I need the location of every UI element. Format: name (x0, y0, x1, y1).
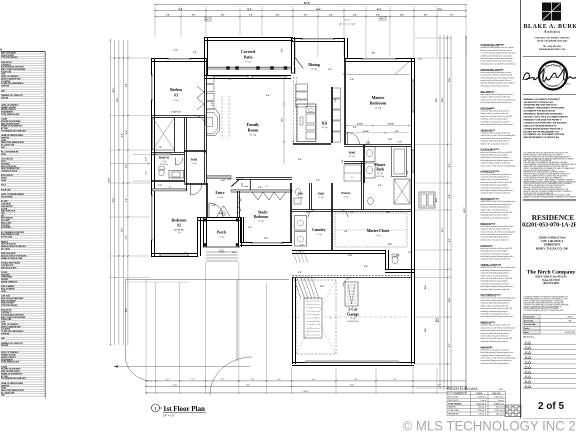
svg-text:INTENDED TO BE USED FOR P: INTENDED TO BE USED FOR PERMIT O (524, 119, 562, 121)
title disclaimer (524, 296, 569, 313)
svg-text:Drawn By:: Drawn By: (524, 320, 534, 322)
master interior dims (347, 125, 409, 127)
svg-text:Pdr: Pdr (298, 192, 304, 196)
info table (523, 315, 576, 335)
svg-text:Study/: Study/ (258, 211, 269, 215)
svg-text:10' Clg: 10' Clg (377, 173, 383, 175)
svg-text:Architect: Architect (543, 29, 561, 34)
svg-text:Bath #2: Bath #2 (159, 156, 170, 160)
svg-text:2009: 2009 (499, 389, 503, 391)
garage note box (304, 298, 322, 338)
svg-text:VLTD Clg: VLTD Clg (376, 176, 384, 178)
svg-text:3'-8": 3'-8" (449, 194, 451, 198)
wall: kitchen bottom (293, 143, 331, 145)
interior dimension texts (158, 48, 438, 332)
svg-text:10' Clg: 10' Clg (217, 197, 223, 199)
svg-text:6'-0": 6'-0" (449, 238, 451, 242)
svg-text:9'-4": 9'-4" (312, 379, 316, 381)
door arc bath2 (176, 158, 184, 166)
svg-text:© MLS TECHNOLOGY INC 2: © MLS TECHNOLOGY INC 2 (403, 418, 576, 432)
wall: family room left (204, 58, 206, 183)
wall: hall right bottom (344, 161, 363, 163)
svg-text:5'-8": 5'-8" (126, 83, 128, 87)
porch columns (204, 219, 207, 222)
svg-text:5'-0": 5'-0" (304, 15, 308, 17)
garage attic ladder (345, 282, 358, 306)
window master top (362, 58, 396, 60)
patio beam (206, 66, 291, 68)
exterior wall: left (151, 58, 153, 256)
wall: bath2/hall divider (184, 117, 186, 183)
svg-text:04-09-2021: 04-09-2021 (565, 332, 576, 334)
laundry washer dryer (295, 216, 307, 231)
svg-text:Family: Family (247, 122, 260, 127)
svg-text:605 60/70 HC: 605 60/70 HC (347, 321, 359, 323)
svg-text:10' Clg: 10' Clg (349, 156, 355, 158)
drive arc right (237, 306, 292, 361)
svg-text:SUPPORT: SUPPORT (1, 86, 10, 88)
svg-text:DETECT WINDOW UNIT: DETECT WINDOW UNIT (1, 78, 22, 80)
exterior wall: dining top (291, 38, 344, 40)
svg-text:8'-4": 8'-4" (354, 379, 358, 381)
right notes column (481, 44, 516, 365)
window bath right (412, 150, 414, 172)
svg-text:5/8 IN GYPSUM: 5/8 IN GYPSUM (1, 303, 14, 305)
svg-text:7'-0": 7'-0" (450, 15, 454, 17)
svg-text:5'-0": 5'-0" (277, 379, 281, 381)
exterior wall: bedroom3 top (151, 58, 206, 60)
svg-text:5'-8": 5'-8" (192, 15, 196, 17)
patio posts (226, 66, 229, 69)
architect seal (539, 62, 567, 90)
svg-text:NOT IN BUNDLE SUPPORT: NOT IN BUNDLE SUPPORT (1, 314, 25, 316)
exterior wall: study bottom (240, 242, 292, 244)
wall: garage-house separation (292, 277, 412, 279)
svg-text:SHUTDOWNS: SHUTDOWNS (1, 196, 13, 198)
svg-text:COMPONENT: COMPONENT (1, 277, 13, 279)
window master right (412, 80, 414, 112)
svg-text:WINDOW NOTES:: WINDOW NOTES: (481, 223, 497, 225)
garage dashed area (296, 280, 336, 354)
exterior wall: study left (240, 217, 242, 242)
study bifold doors (252, 192, 286, 200)
svg-text:11'-6": 11'-6" (117, 98, 119, 103)
wall: bath2 top (151, 152, 184, 154)
svg-text:LEVEL: LEVEL (1, 291, 8, 293)
door arc entry front (209, 203, 223, 217)
svg-text:66'-0": 66'-0" (464, 208, 466, 213)
family ceiling dashes (221, 96, 223, 139)
bath2 vanity (169, 171, 184, 179)
svg-text:HOLD: HOLD (1, 161, 7, 163)
svg-text:TOP WINDOW OR OVER UNIT: TOP WINDOW OR OVER UNIT (1, 378, 27, 380)
svg-text:SPECS: SPECS (1, 178, 8, 180)
svg-text:TOP WINDOW OR OVER UNIT: TOP WINDOW OR OVER UNIT (1, 130, 27, 132)
exterior wall: garage bottom (292, 362, 414, 364)
svg-text:LOG CIRCLES: LOG CIRCLES (1, 159, 14, 161)
svg-text:P Clg: P Clg (246, 62, 251, 64)
svg-text:10' Clg: 10' Clg (375, 108, 381, 110)
wall: pantry right (361, 162, 363, 210)
svg-text:SUPPORT: SUPPORT (1, 137, 10, 139)
svg-text:Bedroom: Bedroom (370, 101, 387, 106)
separator 1 (523, 56, 576, 58)
svg-text:Porch: Porch (217, 231, 226, 235)
svg-text:SLPD Clg: SLPD Clg (160, 164, 168, 166)
kitchen cabinets left (296, 84, 308, 91)
window bedrm3 left (151, 75, 153, 100)
window dining top (302, 38, 334, 40)
bedrm3 closet bifold (197, 86, 204, 98)
svg-text:9' Clg: 9' Clg (219, 237, 224, 239)
wall: dining left (294, 39, 296, 58)
fireplace (207, 109, 220, 136)
bath2 toilet (159, 169, 164, 176)
window bedroom2 bottom (160, 254, 188, 256)
wall: master bedroom left (344, 58, 346, 145)
svg-text:Master: Master (375, 163, 386, 167)
svg-text:4/9/21: 4/9/21 (566, 84, 571, 86)
svg-text:5'-8": 5'-8" (166, 15, 170, 17)
floor plan data table (447, 387, 506, 415)
svg-text:FLOOR: FLOOR (1, 208, 8, 210)
svg-text:LINES: LINES (1, 388, 7, 390)
wall: laundry right (331, 210, 333, 251)
svg-text:Pantry: Pantry (341, 191, 351, 195)
svg-text:5'-8": 5'-8" (251, 379, 255, 381)
svg-text:10'-8": 10'-8" (449, 78, 451, 83)
bath2 left extension lines (133, 154, 151, 156)
plan title circle (152, 404, 160, 412)
signature (523, 69, 576, 82)
top dimension lines (154, 2, 467, 57)
svg-text:LOW: LOW (1, 74, 5, 76)
door arc closet (340, 210, 348, 218)
hall linen (344, 165, 361, 181)
svg-text:8'-0": 8'-0" (449, 163, 451, 167)
revision rows (523, 342, 576, 389)
wall: bedrm3 bottom (151, 115, 205, 117)
svg-text:5/8 IN GYPSUM: 5/8 IN GYPSUM (1, 55, 14, 57)
wall: bath vanity wall (363, 145, 365, 184)
svg-text:10'-8": 10'-8" (438, 9, 443, 11)
svg-text:FILL OR FURNITURE: FILL OR FURNITURE (1, 152, 19, 154)
svg-text:Master: Master (372, 95, 385, 100)
cl strip track (231, 190, 292, 192)
porch steps (206, 251, 238, 253)
svg-text:17'-0": 17'-0" (246, 385, 251, 387)
svg-text:LOW: LOW (1, 322, 5, 324)
svg-text:Kit: Kit (322, 122, 328, 126)
front slab outline (125, 280, 289, 395)
separator 3 (523, 199, 576, 201)
kitchen island (297, 104, 316, 142)
bottom dimension lines (145, 35, 467, 394)
svg-text:6'-8": 6'-8" (276, 15, 280, 17)
door arc hall-bath (363, 143, 370, 150)
svg-text:19'-8": 19'-8" (113, 198, 115, 203)
svg-text:2 of 5: 2 of 5 (538, 401, 565, 412)
svg-text:54'-0": 54'-0" (304, 2, 311, 5)
svg-text:7'-0": 7'-0" (437, 385, 441, 387)
svg-text:#3: #3 (174, 93, 178, 98)
wall: study-laundry (290, 183, 292, 242)
master toilet nook (368, 197, 374, 205)
exterior wall: right (411, 58, 413, 364)
family room builtins (207, 76, 215, 83)
title block border (520, 0, 522, 418)
porch gable (217, 206, 224, 217)
door arc bedroom2 (191, 184, 203, 196)
wall: pdr right (309, 183, 311, 210)
svg-text:NOT IN BUNDLE SUPPORT: NOT IN BUNDLE SUPPORT (1, 67, 25, 69)
wall: entry left (206, 183, 208, 217)
master shower (394, 179, 410, 204)
wall: master bedroom bottom (344, 144, 412, 146)
svg-text:1/4" = 1'-0": 1/4" = 1'-0" (163, 414, 175, 417)
master bath vanities (364, 147, 375, 162)
wall: hall bottom long (185, 183, 208, 185)
exterior wall: patio top (205, 37, 294, 39)
entry arch opening (207, 176, 231, 179)
svg-text:1st Floor Plan: 1st Floor Plan (163, 405, 205, 413)
svg-text:2-Car: 2-Car (348, 308, 358, 312)
svg-text:Bedroom: Bedroom (172, 219, 188, 223)
wall: bath-closet (292, 209, 412, 211)
svg-text:9' Clg: 9' Clg (376, 235, 381, 237)
svg-text:8'-0": 8'-0" (221, 15, 225, 17)
wall: bath2 bottom (151, 180, 185, 182)
svg-text:18'-8": 18'-8" (247, 9, 252, 11)
svg-text:12595 S 68th E Ave: 12595 S 68th E Ave (538, 235, 565, 239)
svg-text:Garage: Garage (347, 313, 359, 317)
architect logo (542, 3, 561, 21)
svg-text:Patio: Patio (244, 55, 253, 60)
svg-text:SUPPORT: SUPPORT (1, 385, 10, 387)
svg-text:PER WINDOW: PER WINDOW (1, 218, 13, 220)
svg-text:5'-0": 5'-0" (126, 235, 128, 239)
right dimension lines (415, 35, 467, 390)
closet linen bedrm3 (153, 118, 175, 151)
svg-text:HOLD: HOLD (1, 185, 7, 187)
svg-text:RESIDENCE: RESIDENCE (532, 213, 575, 222)
bottom right line (524, 417, 576, 419)
svg-text:Checked By:: Checked By: (524, 324, 536, 326)
porch walls (198, 217, 241, 219)
svg-text:7'-0": 7'-0" (221, 379, 225, 381)
svg-text:10' Clg: 10' Clg (311, 69, 317, 71)
svg-text:7'-8": 7'-8" (393, 379, 397, 381)
svg-text:Bath: Bath (376, 168, 383, 172)
svg-text:ENERGY NOTES:: ENERGY NOTES: (481, 322, 496, 324)
exterior wall: patio right (291, 37, 293, 73)
exterior wall: patio left (204, 37, 206, 76)
door arc dining-patio (296, 58, 304, 68)
kitchen counter dashes (293, 77, 295, 143)
svg-text:5'-0": 5'-0" (166, 379, 170, 381)
svg-text:10' Clg: 10' Clg (258, 221, 264, 223)
stoop hatch (293, 276, 301, 299)
door arc laundry (308, 210, 316, 218)
exterior wall: bedroom2 right (197, 217, 199, 256)
door arc garage (343, 278, 352, 287)
svg-text:HOLDER OR SHOWING: HOLDER OR SHOWING (1, 369, 21, 371)
master ceiling break (347, 74, 410, 76)
wall: pantry left (331, 183, 333, 210)
svg-text:11'-0": 11'-0" (173, 385, 178, 387)
svg-text:29'-0": 29'-0" (438, 318, 440, 323)
svg-text:Room: Room (248, 128, 259, 133)
svg-text:TYPE FOR CEILING: TYPE FOR CEILING (1, 305, 18, 307)
svg-text:21'-8": 21'-8" (350, 385, 355, 387)
cl partition (249, 179, 251, 190)
svg-text:ROOF LINE: ROOF LINE (1, 189, 11, 191)
svg-text:13'-0": 13'-0" (442, 228, 444, 233)
bedroom2 cl strip (152, 189, 186, 191)
grade arrow line (114, 366, 250, 368)
svg-text:9' Clg: 9' Clg (192, 163, 197, 165)
svg-text:HOLDER OR SHOWING: HOLDER OR SHOWING (1, 121, 21, 123)
svg-text:SOMERSET: SOMERSET (544, 243, 561, 247)
fine print block (524, 152, 576, 199)
svg-text:9' Clg: 9' Clg (173, 100, 178, 102)
svg-text:1: 1 (155, 407, 157, 411)
svg-text:Bedroom: Bedroom (254, 215, 268, 219)
svg-text:Revisions:: Revisions: (524, 336, 535, 338)
left general notes table (1, 52, 46, 399)
svg-text:9' Clg: 9' Clg (344, 197, 349, 199)
entry-study chevrons (238, 196, 242, 204)
svg-text:10' Clg: 10' Clg (250, 135, 256, 137)
exterior wall: garage left (292, 278, 294, 365)
svg-text:Hall: Hall (318, 192, 324, 196)
svg-text:9' Clg: 9' Clg (162, 161, 167, 163)
svg-text:9' Clg: 9' Clg (298, 197, 303, 199)
svg-text:Master Closet: Master Closet (367, 229, 390, 233)
svg-text:Bedrm: Bedrm (170, 87, 182, 92)
corner stamp box (505, 405, 521, 417)
svg-text:9'-8": 9'-8" (122, 228, 124, 232)
wall: family north (205, 75, 292, 77)
svg-text:CONCRETE: CONCRETE (1, 204, 12, 206)
wall: kitchen right cabinets (331, 87, 333, 143)
svg-text:Clg: Clg (178, 232, 181, 234)
exterior wall: dining step (344, 38, 346, 58)
svg-text:DETECT WINDOW UNIT: DETECT WINDOW UNIT (1, 326, 22, 328)
svg-text:9' Clg: 9' Clg (319, 197, 324, 199)
exterior wall: house bottom over laundry (292, 250, 385, 252)
wall: cl strip top (236, 177, 292, 179)
svg-text:8'-0": 8'-0" (449, 343, 451, 347)
svg-text:Entry: Entry (216, 191, 225, 195)
left dimension lines (108, 39, 150, 346)
svg-text:Hall: Hall (349, 151, 355, 155)
svg-text:LOT 1 BLOCK 2: LOT 1 BLOCK 2 (541, 239, 564, 243)
coat closet diagonal (231, 180, 239, 187)
svg-text:DOOR NOTES:: DOOR NOTES: (481, 245, 494, 247)
garage door (305, 360, 399, 362)
svg-text:TYPE FOR CEILING: TYPE FOR CEILING (1, 57, 18, 59)
svg-text:3'-8": 3'-8" (249, 15, 253, 17)
svg-text:SUPPORT: SUPPORT (1, 333, 10, 335)
master closet shelving (335, 213, 407, 247)
svg-text:Laundry: Laundry (312, 228, 326, 232)
svg-text:The Birch Company: The Birch Company (527, 269, 576, 275)
svg-text:CEILING JOISTS:: CEILING JOISTS: (481, 130, 496, 132)
master tub (392, 147, 407, 177)
svg-text:DOORS: DOORS (1, 272, 8, 274)
exterior wall: bedroom2 bottom (151, 256, 198, 258)
svg-text:#2: #2 (177, 224, 181, 228)
garage center line (324, 316, 410, 318)
svg-text:Hall: Hall (191, 158, 197, 162)
pdr fixtures (295, 189, 300, 196)
ac pad (419, 192, 435, 208)
exterior wall: WC block (385, 250, 387, 270)
svg-text:FLOOR PLAN DATA: FLOOR PLAN DATA (448, 387, 479, 391)
separator 2 (523, 94, 576, 96)
door arc bedrm3 (195, 116, 205, 126)
svg-text:CEILING: CEILING (1, 279, 9, 281)
svg-text:LINES: LINES (1, 180, 7, 182)
svg-text:9' Clg: 9' Clg (351, 318, 356, 320)
svg-text:02201: 02201 (567, 316, 573, 318)
svg-text:FOR SPEC: FOR SPEC (1, 225, 11, 227)
svg-text:10' Clg: 10' Clg (322, 127, 328, 129)
svg-text:02201-053-070-1A-2R: 02201-053-070-1A-2R (522, 223, 576, 229)
svg-text:54'-0": 54'-0" (303, 391, 309, 393)
svg-text:BIXBY, TULSA CO, OK: BIXBY, TULSA CO, OK (536, 246, 569, 250)
bath2 shelf band (156, 153, 172, 155)
svg-text:Scale:: Scale: (524, 328, 530, 330)
svg-text:7'-4": 7'-4" (191, 379, 195, 381)
svg-text:9' Clg: 9' Clg (317, 234, 322, 236)
svg-text:Dining: Dining (308, 62, 320, 67)
svg-text:LOW SIGN: LOW SIGN (1, 296, 11, 298)
wc toilet (392, 256, 398, 264)
door arc master (348, 133, 360, 145)
svg-text:Covered: Covered (241, 49, 256, 54)
svg-text:LINES: LINES (1, 140, 7, 142)
warning paragraph (524, 98, 569, 139)
window bedrm3 top (168, 58, 190, 60)
window bedroom2 left (151, 195, 153, 240)
exterior wall: master top (344, 58, 414, 60)
kitchen ceiling dash (283, 78, 285, 164)
window study bottom (252, 242, 282, 244)
